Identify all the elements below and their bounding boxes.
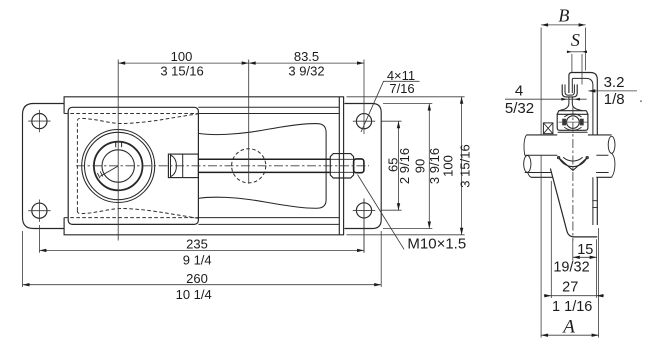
svg-text:2 9/16: 2 9/16	[397, 148, 412, 184]
rotated dim texts right column	[386, 144, 473, 187]
left bracket plate	[23, 104, 65, 229]
bearing circles	[82, 130, 155, 203]
svg-text:235: 235	[186, 237, 208, 252]
hidden slot line bottom	[64, 217, 198, 219]
bearing ball	[567, 116, 580, 129]
visible slot lines right of block	[198, 114, 339, 218]
leader 4x11	[361, 81, 420, 132]
shaft	[524, 135, 615, 177]
top rail	[64, 97, 344, 114]
svg-text:100: 100	[171, 49, 193, 64]
shaft right break ellipse	[608, 136, 615, 153]
slider cup inner	[565, 84, 574, 95]
svg-text:7/16: 7/16	[389, 81, 414, 96]
screw anchor nut at block	[168, 154, 198, 178]
right ext line x=364 through hole	[363, 60, 365, 253]
arrowheads front	[23, 61, 464, 286]
housing bottom line	[558, 131, 588, 133]
slider cup outer	[562, 84, 577, 97]
stray speck	[640, 100, 642, 102]
svg-text:S: S	[571, 30, 580, 50]
side view vertical centerline	[572, 106, 574, 241]
window web contour	[198, 124, 326, 209]
svg-text:3 9/32: 3 9/32	[288, 64, 324, 79]
right side ext lines horizontal	[382, 121, 402, 210]
svg-text:4: 4	[515, 82, 523, 99]
take-up slider block	[68, 107, 198, 224]
bearing horizontal centerline	[559, 121, 588, 123]
bolt hole crosshairs	[28, 110, 375, 222]
A dim	[598, 228, 600, 338]
svg-text:M10×1.5: M10×1.5	[407, 236, 466, 253]
jam nut at right plate	[330, 154, 353, 178]
centerline vertical bearing	[117, 60, 119, 241]
threaded rod	[198, 159, 330, 172]
svg-text:1 1/16: 1 1/16	[552, 299, 592, 315]
frame rail hook inner	[572, 78, 593, 225]
svg-text:3.2: 3.2	[604, 74, 625, 91]
shaft bore circle	[102, 150, 134, 182]
hidden screw clearance circle	[232, 149, 266, 183]
centerline vertical mid circle	[248, 60, 250, 184]
set screw ticks top	[116, 141, 122, 147]
leader M10x1.5	[358, 175, 405, 250]
svg-text:260: 260	[186, 271, 208, 286]
housing boss outer circle	[82, 130, 155, 203]
27 dim	[550, 181, 552, 298]
svg-text:27: 27	[562, 279, 578, 295]
svg-text:100: 100	[440, 155, 455, 177]
frame opening top edge (right of block)	[198, 106, 339, 108]
rail end cap line 1	[338, 97, 340, 235]
hidden casting contour (dashed)	[64, 114, 265, 219]
bearing raceway arcs	[564, 114, 581, 131]
dim texts side	[505, 5, 625, 337]
svg-text:1/8: 1/8	[604, 91, 625, 108]
svg-text:90: 90	[413, 159, 428, 173]
frame rail hook outer	[569, 73, 597, 226]
housing body	[557, 114, 588, 130]
centerline horizontal	[76, 165, 369, 167]
housing lower lobe	[550, 156, 598, 236]
svg-text:10 1/4: 10 1/4	[176, 287, 212, 302]
frame opening bottom edge (right of block)	[198, 223, 339, 225]
4 dim	[505, 98, 587, 100]
dim texts front	[160, 49, 466, 302]
15 dim	[573, 239, 597, 298]
svg-text:19/32: 19/32	[553, 260, 589, 276]
shaft left break ellipse	[524, 156, 531, 173]
arrowheads side	[541, 23, 603, 337]
set screw diagonal	[100, 166, 118, 176]
bearing inner ring circle (bold)	[94, 142, 143, 191]
housing flange	[557, 111, 588, 115]
S dim	[569, 51, 585, 53]
svg-text:B: B	[558, 5, 569, 25]
svg-text:15: 15	[577, 242, 593, 258]
bolt holes	[32, 114, 372, 219]
rod tip	[354, 159, 364, 173]
svg-text:5/32: 5/32	[505, 100, 534, 117]
svg-text:A: A	[561, 316, 575, 337]
set screw boss	[543, 123, 553, 134]
set screw thread ticks	[97, 171, 102, 178]
svg-text:3 15/16: 3 15/16	[458, 144, 473, 187]
bottom rail	[64, 218, 344, 235]
right bracket plate	[344, 104, 381, 229]
inner ring sections	[562, 119, 566, 126]
svg-text:9 1/4: 9 1/4	[183, 252, 212, 267]
B dim	[541, 24, 586, 26]
rail end cap line 2	[343, 97, 345, 235]
right dim lines vertical	[398, 121, 400, 210]
svg-text:83.5: 83.5	[294, 49, 319, 64]
top dim line	[118, 62, 364, 64]
bearing seat circle	[85, 132, 152, 199]
3.2 dim	[588, 90, 637, 92]
svg-text:3 15/16: 3 15/16	[160, 64, 203, 79]
slider neck	[559, 97, 569, 111]
bore arcs	[559, 157, 588, 167]
bottom dims	[39, 199, 364, 253]
hidden slot line top	[64, 113, 198, 115]
